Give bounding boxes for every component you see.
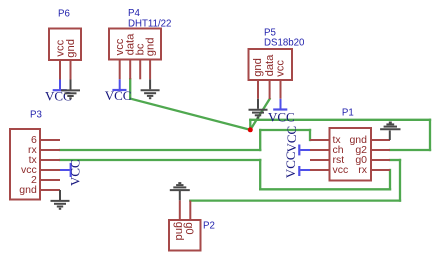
P1 pin g2 (371, 149, 390, 151)
P4 pin data (129, 60, 131, 80)
wire horizontal to tx column (260, 129, 310, 131)
ground at P1 gnd (flipped, pointing up) (380, 123, 400, 141)
P1 pin g0 (371, 159, 390, 161)
svg-text:gnd: gnd (145, 38, 157, 57)
svg-text:rx: rx (358, 164, 367, 176)
wire diagonal P5.data to node (250, 99, 269, 130)
supply VCC at P4 (105, 79, 132, 103)
P3 pin tx (40, 159, 60, 161)
svg-text:P2: P2 (203, 221, 215, 232)
P6 pin vcc (59, 60, 61, 80)
P3 pin gnd (40, 189, 60, 191)
ground at P2 (flipped, pointing up) (170, 183, 190, 200)
P6 pin gnd (70, 60, 72, 80)
svg-text:VCC: VCC (283, 151, 298, 178)
wire P4 data stub down (129, 79, 131, 98)
svg-text:VCC: VCC (268, 109, 295, 124)
svg-text:gnd: gnd (173, 222, 185, 241)
P1 pin rx (371, 169, 390, 171)
svg-text:gnd: gnd (65, 39, 77, 58)
svg-text:vcc: vcc (333, 164, 349, 176)
wire node up (249, 120, 251, 130)
ground at P5 (249, 99, 268, 118)
junction dot (248, 127, 253, 132)
svg-text:P6: P6 (58, 9, 70, 20)
wire branch down (259, 160, 261, 189)
svg-text:gnd: gnd (252, 58, 264, 77)
svg-text:gnd: gnd (19, 184, 37, 196)
wire down to P1 tx (309, 130, 311, 140)
connector P5 box (249, 49, 293, 80)
svg-text:vcc: vcc (275, 60, 287, 77)
module P1 box (330, 128, 372, 181)
wire g0 horizontal to P2 (190, 199, 400, 201)
supply VCC at P6 (45, 80, 72, 104)
supply VCC at P1 ch (pointing left) (284, 126, 310, 156)
svg-text:g0: g0 (183, 222, 195, 234)
svg-text:VCC: VCC (68, 159, 83, 186)
wire up to P1 rx (389, 170, 391, 189)
supply VCC at P3 (pointing right) (60, 159, 83, 186)
svg-text:P3: P3 (30, 109, 42, 120)
P1 pin rst (310, 159, 330, 161)
connector P2 box (169, 220, 201, 251)
P3 pin vcc (40, 169, 60, 171)
wire P1.g0 stub (390, 159, 400, 161)
P2 pin gnd (179, 200, 181, 220)
wire bottom horizontal (260, 188, 390, 190)
P3 pin 2 (40, 179, 60, 181)
P4 pin gnd (149, 60, 151, 80)
wire top horizontal to right (250, 119, 430, 121)
P3 pin 6 (40, 139, 60, 141)
P1 pin ch (310, 149, 330, 151)
svg-text:P1: P1 (342, 108, 354, 119)
connector P6 box (49, 29, 81, 61)
P2 pin g0 (189, 201, 191, 220)
wire right column down (429, 120, 431, 150)
P4 pin bc (139, 60, 141, 80)
svg-text:DS18b20: DS18b20 (264, 38, 305, 49)
P4 pin vcc (119, 60, 121, 80)
connector P4 box (109, 29, 161, 60)
wire g0 column down (399, 160, 401, 201)
P1 pin tx (310, 139, 330, 141)
P1 pin gnd (371, 139, 390, 141)
connector P3 box (10, 129, 40, 200)
wire to P1 g2 (390, 149, 430, 151)
ground at P6 (61, 80, 80, 99)
P5 pin data (269, 80, 271, 99)
ground at P3 (51, 190, 70, 209)
wire jog up (259, 130, 261, 150)
P3 pin rx (40, 149, 60, 151)
supply VCC at P5 (268, 99, 295, 125)
ground at P4 (141, 79, 160, 98)
P5 pin vcc (280, 80, 282, 99)
wire P3.rx horizontal (60, 149, 260, 151)
P5 pin gnd (257, 80, 259, 99)
wire P3.tx to P1.rst (60, 159, 260, 161)
wire diagonal P4.data to node (130, 99, 250, 130)
P1 pin vcc (310, 169, 330, 171)
svg-text:VCC: VCC (284, 126, 299, 153)
supply VCC at P1 vcc (pointing left) (283, 151, 310, 178)
svg-text:VCC: VCC (105, 88, 132, 103)
